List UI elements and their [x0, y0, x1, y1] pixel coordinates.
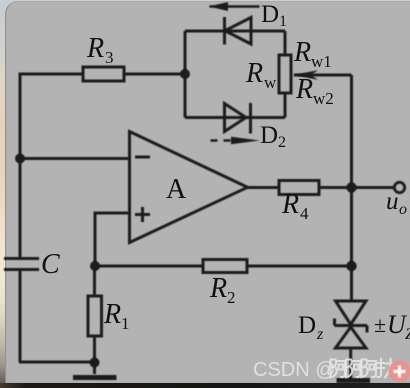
diode loop: bottom wire: [185, 116, 285, 119]
resistor R3: [83, 67, 124, 81]
svg-text:D: D: [260, 122, 278, 149]
wire minus input: [20, 157, 130, 160]
svg-text:4: 4: [300, 204, 309, 223]
op-amp A triangle: [130, 132, 248, 243]
wire Dz to ground: [349, 348, 352, 378]
svg-text:w2: w2: [313, 89, 334, 108]
resistor R4: [279, 181, 319, 195]
svg-text:Z: Z: [405, 326, 410, 343]
svg-text:R: R: [103, 299, 121, 330]
resistor R2: [203, 260, 247, 273]
capacitor C: [4, 259, 39, 363]
zener pair Dz: [336, 301, 367, 325]
svg-text:R: R: [295, 74, 313, 105]
watermark glyph 阿 x3 and 扶 (hand drawn): [331, 359, 397, 378]
svg-text:z: z: [316, 326, 324, 343]
diode loop: left vertical: [184, 31, 187, 118]
node junction output: [346, 182, 356, 192]
op-amp plus sign: [135, 207, 150, 222]
dashed arrow below D2 (points right): [211, 139, 233, 141]
svg-text:2: 2: [278, 134, 286, 151]
diode loop: right vertical bottom: [284, 93, 287, 118]
svg-text:w: w: [264, 73, 277, 92]
node junction R2 / Dz: [346, 261, 356, 271]
ground (left): [73, 375, 117, 380]
svg-text:1: 1: [121, 314, 130, 333]
wire op-amp output to R4: [248, 186, 280, 189]
diode D2 (triangle points right, cathode bar right): [225, 104, 247, 132]
svg-text:C: C: [41, 249, 60, 280]
svg-text:3: 3: [105, 48, 114, 67]
svg-text:R: R: [245, 58, 263, 89]
svg-text:o: o: [399, 201, 407, 218]
svg-text:A: A: [166, 174, 187, 205]
node junction R3/loop: [180, 69, 190, 79]
svg-text:D: D: [261, 1, 279, 28]
svg-text:R: R: [209, 273, 227, 304]
svg-text:R: R: [281, 189, 299, 220]
wiper arrow head (points left into Rw): [293, 70, 319, 80]
svg-text:D: D: [298, 312, 316, 339]
wire R3 top horizontal: [20, 74, 185, 257]
svg-text:CSDN @: CSDN @: [253, 359, 336, 381]
svg-text:2: 2: [227, 288, 236, 307]
wiper wire to right rail: [294, 74, 352, 77]
diode loop: right vertical top: [284, 31, 287, 55]
svg-text:u: u: [386, 188, 399, 215]
right rail: [350, 75, 353, 300]
watermark CSDN: [253, 359, 410, 383]
svg-text:±: ±: [374, 312, 386, 337]
wire R4 to node: [319, 186, 352, 189]
diode loop: top wire: [185, 30, 285, 33]
ground (right, under Dz): [337, 378, 371, 383]
svg-text:1: 1: [279, 13, 287, 30]
output terminal circle: [394, 182, 404, 192]
wire bottom left: [19, 361, 95, 364]
wire middle horizontal to R2: [95, 265, 352, 268]
resistor R1: [88, 296, 102, 336]
resistor R1 branch wire: [93, 266, 96, 374]
svg-text:w1: w1: [311, 52, 332, 71]
svg-text:R: R: [86, 33, 104, 64]
op-amp minus sign: [135, 156, 150, 159]
wire node to output terminal: [352, 186, 395, 189]
svg-text:R: R: [293, 37, 311, 68]
node junction plus feedback: [90, 261, 100, 271]
watermark plus badge: [389, 361, 410, 383]
arrow above D1 (points left): [210, 5, 260, 8]
potentiometer Rw: [279, 55, 291, 93]
diode D1 (cathode bar left, triangle points left): [223, 17, 226, 45]
wire plus input: [95, 213, 130, 266]
node junction left rail / minus input: [15, 154, 25, 164]
node junction ground left: [90, 358, 100, 368]
